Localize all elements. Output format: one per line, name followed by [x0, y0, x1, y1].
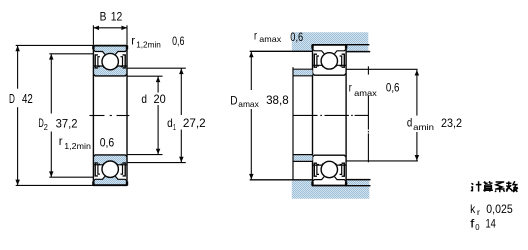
right view: housing abutment lines — [250, 45, 371, 52]
right view: shaft block (bottom, hatched) — [292, 180, 370, 199]
svg-text:r: r — [477, 207, 480, 217]
svg-text:0: 0 — [475, 222, 480, 232]
title: calculation factors (Chinese, drawn strokes) — [471, 181, 518, 192]
svg-text:1,2min: 1,2min — [136, 40, 161, 50]
svg-text:23,2: 23,2 — [441, 116, 462, 130]
left view: bearing outer ring and inner ring top section — [92, 45, 128, 76]
svg-text:1,2min: 1,2min — [64, 141, 91, 151]
dimension D2 (shoulder diameter) — [49, 54, 93, 177]
label Damax 38,8 — [230, 93, 289, 109]
label r1,2min 0,6 (top right) — [131, 34, 185, 50]
svg-text:0,6: 0,6 — [386, 80, 400, 94]
svg-text:amax: amax — [238, 99, 259, 109]
svg-text:r: r — [59, 134, 63, 148]
label r amax 0,6 (middle) — [349, 80, 400, 97]
svg-text:r: r — [131, 34, 135, 48]
label r1,2min 0,6 (bottom left) — [59, 134, 115, 151]
dimension B (width) with arrows — [93, 25, 127, 44]
dimension Da max — [249, 52, 254, 180]
svg-text:d: d — [141, 92, 147, 106]
svg-text:r: r — [254, 29, 257, 43]
left view: bearing bottom section — [92, 155, 128, 186]
right view: housing bore edge line (dash-dot vertical) — [367, 66, 369, 162]
svg-text:d: d — [407, 116, 412, 130]
left view: axis centerline — [90, 115, 130, 117]
svg-text:d: d — [167, 116, 173, 130]
svg-text:amax: amax — [259, 34, 282, 44]
svg-text:amin: amin — [413, 122, 434, 132]
right view: shaft shoulder (top bar) — [293, 69, 313, 76]
label D 42 — [9, 92, 33, 106]
right view: housing block (top, hatched) — [292, 32, 369, 51]
dimension d (bore) — [127, 76, 163, 154]
svg-text:0,6: 0,6 — [290, 30, 303, 44]
svg-text:1: 1 — [173, 122, 176, 132]
dimension D (outer diameter) — [15, 45, 93, 185]
dimension d1 (inner shoulder diameter) — [127, 68, 186, 162]
svg-text:14: 14 — [486, 217, 497, 231]
right view: bearing side face lines — [313, 44, 347, 186]
label kr 0,025 — [470, 202, 513, 217]
svg-text:20: 20 — [154, 92, 167, 106]
label damin 23,2 — [407, 116, 462, 133]
svg-text:0,6: 0,6 — [172, 34, 185, 48]
right view: axis centerline — [293, 114, 368, 116]
svg-text:amax: amax — [354, 88, 378, 98]
svg-text:37,2: 37,2 — [56, 117, 78, 131]
svg-text:38,8: 38,8 — [266, 93, 289, 107]
right view: bearing top section — [311, 45, 347, 75]
svg-text:27,2: 27,2 — [183, 116, 206, 130]
svg-text:D: D — [230, 93, 237, 107]
svg-text:12: 12 — [111, 9, 123, 23]
svg-text:B: B — [100, 9, 107, 23]
svg-text:D: D — [9, 92, 15, 106]
label B 12 — [100, 9, 123, 23]
svg-text:0,6: 0,6 — [100, 135, 115, 149]
svg-text:2: 2 — [44, 122, 48, 132]
label D2 37,2 — [38, 116, 77, 132]
left view: bearing side face lines — [93, 45, 127, 186]
svg-text:42: 42 — [22, 92, 33, 106]
label f0 14 — [470, 217, 496, 233]
label r amax 0,6 (top) — [254, 29, 304, 44]
right view: bearing bottom section — [311, 155, 347, 186]
svg-text:k: k — [470, 202, 475, 216]
dimension da min extension lines — [346, 69, 419, 161]
right view: shaft shoulder face line — [292, 67, 294, 179]
right view: shaft abutment lines (bottom) — [250, 180, 371, 186]
svg-text:r: r — [349, 81, 352, 95]
label d 20 — [141, 92, 166, 106]
label d1 27,2 — [167, 116, 206, 132]
right view: shaft shoulder (bottom bar) — [293, 155, 313, 162]
svg-text:0,025: 0,025 — [486, 202, 513, 216]
